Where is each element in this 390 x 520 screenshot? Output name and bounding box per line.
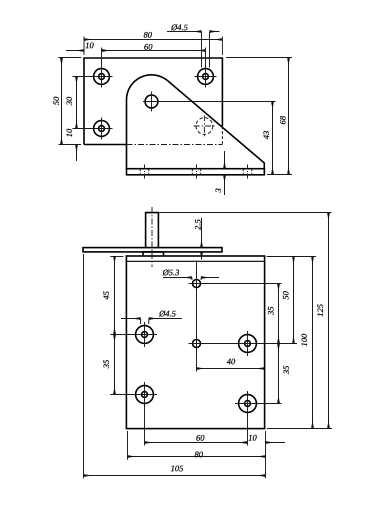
svg-text:68: 68 [277,115,287,124]
dim 10 (top) [66,50,109,52]
dim 3 (strip thickness) [224,151,226,195]
ext body right corner down [265,431,267,478]
centreline holes E-G down to 40-dim [196,261,198,372]
gusset rib outline with rounded corner and slope [127,75,265,175]
dim 35 (left lower) [114,335,116,395]
svg-text:10: 10 [64,128,74,137]
ext body top-right corner right [267,256,317,258]
ext holes A,B left [73,77,91,129]
svg-text:3: 3 [213,188,223,193]
pin [146,213,159,248]
ext hole E right [202,283,282,285]
svg-text:35: 35 [281,366,291,376]
dim 50 (right) [293,257,295,344]
ext hole A centreline up [101,48,103,66]
dim 10 (bottom, J to edge) [241,442,286,444]
body plate edge-on strip [127,169,265,175]
svg-text:40: 40 [227,356,236,366]
ext hole I centreline down [144,405,146,446]
dim 2.5 (flange thickness) [201,218,203,260]
hole A top-left (plan) [91,66,113,88]
holes G-H line and ext to 50-dim [191,343,298,345]
dim 45 (left) [114,256,116,335]
svg-text:35: 35 [265,307,275,317]
hole H (mid-right) [235,331,260,356]
ext flange left end down to 105 dim [83,254,85,478]
dim 125 (far right) [328,213,330,429]
leader dia 4.5 (hole F) [121,319,182,325]
ext body bottom right [267,428,332,430]
svg-text:10: 10 [248,432,257,442]
svg-text:Ø4.5: Ø4.5 [158,308,176,318]
svg-text:45: 45 [101,291,111,300]
svg-text:10: 10 [85,40,94,50]
ext hole J centreline down [247,415,249,446]
ext plate right corner up [221,37,223,56]
pin centreline [151,207,153,267]
extension / centre lines bottom view [84,213,333,479]
hole I (bottom-left) [132,382,157,407]
ext plate corners left [59,58,82,145]
svg-text:105: 105 [171,463,184,473]
hole K gusset hole (plan) [145,92,158,112]
ext strip bottom right [267,174,292,176]
ext plate top right to 68-dim [226,57,292,59]
dim 80 (top) [84,39,222,41]
flange bar (edge-on) [83,248,222,252]
ext hole F left [110,334,132,336]
hidden plate right edge (dashed) [221,126,223,144]
hole D hidden hole (dashed circle) [194,115,216,137]
svg-text:125: 125 [315,304,325,317]
hole G (centre small) [189,336,205,352]
ext plate left corner up [83,37,85,56]
dim 35 (right upper, E to H) [278,284,280,344]
extension lines top view [59,32,293,175]
ext gusset hole crosshair and right to 43-dim [143,101,276,103]
boss under pin [143,252,164,256]
leader dia 5.3 (hole E) [163,278,219,281]
ext pin top right [158,212,331,214]
svg-text:Ø4.5: Ø4.5 [170,22,188,32]
hole C top-right (plan) [195,66,217,88]
dim 43 (right of top view) [272,102,274,175]
hole J (bottom-right) [235,391,260,416]
svg-text:Ø5.3: Ø5.3 [162,267,180,277]
svg-text:35: 35 [101,360,111,370]
ext hole C centreline up [205,48,207,66]
svg-text:30: 30 [64,96,74,106]
svg-text:43: 43 [261,131,271,140]
dim 50 (left) [61,58,63,145]
ext hole C bore edges up (dia 4.5) [202,32,210,68]
svg-text:100: 100 [299,333,309,347]
ext body left corner down [127,431,129,460]
dim 100 (right) [312,257,314,429]
body plate front outline [126,256,264,429]
dim 60 (top) [102,50,206,52]
svg-text:80: 80 [143,30,152,40]
svg-text:60: 60 [196,433,205,443]
svg-text:50: 50 [281,290,291,299]
hole F (dia 4.5, mid-left) [132,322,157,347]
ext body top-left corner left [110,256,123,258]
ext hole I left [110,394,132,396]
svg-text:80: 80 [194,449,203,459]
dim 10 (left lower) [76,145,78,162]
ext hole J right [256,403,282,405]
dim 80 (bottom) [128,456,266,458]
strip hidden-hole centre marks [140,165,251,180]
hidden plate bottom edge (dash-dot) [127,144,223,146]
svg-text:50: 50 [51,96,61,105]
dim 40 (hole G to body right edge) [197,368,265,370]
dim 35 (right lower, H to J) [278,344,280,404]
body top band line [126,260,264,262]
svg-text:2.5: 2.5 [193,219,203,230]
svg-text:60: 60 [144,42,153,52]
dim 68 (far right of top view) [288,58,290,175]
dim 30 (left) [76,77,78,129]
dim 105 (bottom) [84,475,266,477]
dim 60 (bottom, I to J) [145,442,248,444]
leader dia 4.5 (top view) [167,31,220,33]
hole B bottom-left (plan) [91,118,113,140]
hole E (dia 5.3) [189,276,205,292]
flange plate outline (plan) [84,58,222,145]
